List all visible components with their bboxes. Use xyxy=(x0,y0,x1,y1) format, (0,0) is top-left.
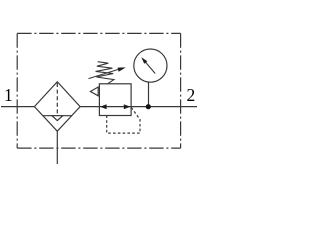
wire: condensate drain line xyxy=(56,131,58,164)
filter element dashed line xyxy=(56,83,58,116)
pressure gauge G1 (dial circle) xyxy=(134,49,167,82)
vent triangle (relieving exhaust) xyxy=(90,87,98,96)
gauge needle shaft xyxy=(146,62,156,73)
enclosure border left xyxy=(16,33,18,148)
regulator U1 (square body) xyxy=(99,84,131,116)
wire: main flow line right (filter to port 2) xyxy=(80,106,197,108)
filter F1 (diamond body) xyxy=(34,82,80,132)
adjustment arrow head xyxy=(118,67,126,71)
gauge needle arrowhead xyxy=(141,57,147,64)
filter separator chord xyxy=(43,115,72,117)
wire: gauge stem xyxy=(148,82,150,107)
svg-text:2: 2 xyxy=(187,85,196,105)
water separator triangle xyxy=(52,116,63,121)
adjustment arrow shaft xyxy=(89,69,121,79)
wire: main flow line left (port 1 to filter) xyxy=(1,106,34,108)
enclosure border top xyxy=(17,32,180,34)
svg-text:1: 1 xyxy=(4,85,13,105)
enclosure border right xyxy=(180,33,182,148)
enclosure border bottom xyxy=(17,147,180,149)
regulator right arrowhead xyxy=(124,104,131,109)
regulator left arrowhead xyxy=(100,104,107,109)
spring (adjustment zigzag) xyxy=(96,62,114,84)
junction node (gauge tap on flow line) xyxy=(146,104,151,109)
pilot control dashed line xyxy=(107,108,140,134)
